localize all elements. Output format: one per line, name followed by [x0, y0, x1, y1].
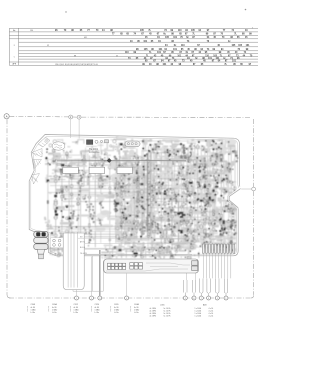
trace pour bg9 [214, 220, 225, 225]
wire horiz ah10 [54, 226, 110, 228]
wire trace bw435 [234, 195, 235, 200]
trace pour bg33 [163, 174, 174, 181]
trace pour bg48 [183, 227, 197, 233]
wire trace b2w79 [126, 201, 129, 204]
component U0 top [87, 140, 93, 145]
transistor Qbd67 [199, 171, 201, 173]
wire trace aw18 [62, 186, 72, 188]
transistor Qbd21 [187, 214, 188, 215]
svg-text:330: 330 [137, 213, 140, 215]
capacitor Cb74 [171, 172, 173, 174]
transistor Qbd237 [182, 167, 184, 169]
wire trace bw426 [185, 240, 189, 244]
wire trace ew11 [179, 246, 186, 251]
resistor Ra9 [47, 201, 48, 204]
wire vert bv2 [143, 142, 147, 238]
wire trace aw97 [48, 153, 60, 155]
transistor Qbd221 [214, 219, 215, 220]
wire trace bw207 [164, 196, 170, 198]
transistor Qad1 [70, 235, 71, 236]
resistor Rb98 [148, 160, 150, 163]
wire vert b2v0 [117, 166, 119, 243]
svg-text:C47: C47 [69, 157, 72, 159]
transistor Qbd63 [148, 220, 149, 221]
trace pour bg11 [151, 195, 157, 199]
diode chain Dpc41 [184, 230, 189, 241]
diode chain Dpc15 [185, 194, 190, 205]
transistor Qbd81 [144, 155, 146, 157]
wire horiz bh4 [141, 159, 194, 161]
wire trace bw402 [178, 246, 184, 247]
wire trace bw119 [220, 155, 223, 159]
wire trace b2w17 [125, 230, 127, 233]
wire trace bw381 [193, 208, 201, 213]
wire trace bw321 [207, 141, 209, 150]
capacitor Cb136 [203, 213, 206, 216]
diode chain Dpc23 [201, 209, 204, 216]
wire trace bw45 [212, 152, 214, 157]
svg-text:4.7k: 4.7k [212, 192, 215, 194]
wire horiz ah11 [75, 233, 136, 235]
wire vert bv13 [180, 145, 182, 246]
node pin P1 [75, 296, 79, 300]
wire horiz bh2 [148, 152, 178, 154]
transistor Qb161 [156, 183, 159, 186]
wire trace bw244 [196, 237, 202, 241]
wire trace bw80 [177, 179, 180, 185]
wire trace cw26 [72, 140, 84, 144]
wire trace dw5 [103, 176, 112, 178]
wire trace bw104 [170, 189, 178, 190]
wire trace bw117 [191, 139, 194, 142]
transistor Qb2d37 [116, 193, 117, 194]
resistor Rb3 [230, 181, 232, 183]
trace pour bg16 [159, 156, 167, 161]
wire trace bw279 [213, 143, 215, 146]
capacitor Cb135 [180, 222, 183, 225]
wire trace bw52 [157, 224, 162, 226]
capacitor Cb157 [168, 152, 170, 154]
transistor Qb78 [182, 156, 185, 159]
wire trace aw107 [56, 207, 64, 209]
transistor Qbd211 [168, 155, 170, 157]
wire trace bw369 [213, 195, 215, 199]
resistor Rb246 [128, 228, 129, 231]
wire trace bw408 [174, 217, 180, 222]
wire trace bw151 [174, 195, 178, 200]
transistor Qd3 [70, 176, 73, 179]
wire e0 [186, 245, 196, 249]
wire trace bw305 [151, 243, 160, 245]
wire trace bw29 [139, 190, 143, 194]
diode chain Dpca23 [88, 203, 92, 217]
wire e12 [173, 256, 178, 259]
transistor Qe18 [185, 257, 186, 258]
svg-text:4: 4 [126, 298, 127, 300]
capacitor Ce2 [175, 246, 178, 249]
transistor Qbd9 [187, 188, 188, 189]
wire trace bw270 [204, 149, 210, 151]
trace pour bg32 [208, 210, 213, 218]
capacitor Cb44 [215, 162, 218, 165]
wire trace b2w25 [119, 245, 121, 250]
transistor Qb115 [155, 223, 158, 226]
wire trace b2w13 [116, 199, 118, 203]
wire trace b2w22 [139, 201, 141, 211]
resistor Rb140 [223, 221, 225, 225]
transistor Qb2d5 [130, 234, 132, 236]
transistor Qb60 [206, 216, 209, 219]
capacitor Cb179 [200, 164, 203, 167]
resistor Ra34 [55, 209, 57, 212]
wire horiz ah6 [62, 193, 136, 195]
wire trace bw395 [176, 161, 180, 163]
transistor Qad5 [117, 180, 118, 181]
wire c1 [63, 156, 65, 166]
transistor Qbd39 [221, 225, 222, 226]
transistor Qbd176 [157, 146, 159, 148]
capacitor Cc1 [67, 156, 69, 158]
resistor Rc3 [52, 150, 55, 153]
wire trace bw28 [209, 165, 216, 167]
wire c36 [118, 159, 120, 166]
wire trace aw94 [120, 174, 122, 178]
wire trace aw48 [71, 232, 73, 234]
transistor Qe20 [70, 249, 72, 251]
transistor Qbd239 [136, 172, 138, 174]
diode chain Dpc18 [173, 192, 176, 200]
capacitor Cb239 [137, 215, 139, 217]
wire trace bw443 [223, 164, 224, 168]
wire trace aw37 [133, 211, 136, 221]
wire trace b2w50 [117, 247, 125, 250]
wire trace bw197 [162, 192, 167, 195]
transistor Qb47 [209, 204, 212, 207]
wire trace bw278 [162, 172, 167, 176]
resistor Rb128 [182, 214, 186, 216]
resistor Rb22 [123, 237, 126, 238]
wire right chain lower [253, 191, 255, 295]
wire trace bw342 [209, 187, 212, 192]
svg-text:3: 3 [99, 298, 100, 300]
wire trace bw432 [142, 200, 143, 205]
wire trace bw43 [176, 159, 184, 161]
trace pour bg71 [188, 199, 200, 204]
transistor Qb232 [127, 221, 130, 224]
transistor Qb2d18 [137, 180, 139, 182]
cable harness W1 wires [68, 232, 77, 288]
wire trace ew4 [117, 252, 122, 258]
transistor Qbd46 [147, 228, 148, 229]
wire trace cw20 [104, 164, 110, 166]
transistor Qbd52 [205, 175, 206, 176]
wire trace bw358 [215, 211, 220, 212]
wire trunk v3 [144, 158, 146, 225]
wire trace bw5 [216, 207, 218, 213]
diode chain Dpc30 [182, 144, 187, 159]
wire c33 [98, 159, 100, 163]
wire trace bw81 [175, 144, 180, 148]
resistor Rb95 [155, 226, 158, 227]
wire trace bw218 [176, 221, 184, 223]
transistor Qd2 [82, 177, 83, 178]
svg-text:L-Okr: L-Okr [134, 312, 139, 314]
transistor Qbd94 [199, 206, 200, 207]
wire harness feed 2 [85, 242, 186, 244]
wire trace bw367 [142, 230, 150, 232]
wire c35 [134, 164, 136, 166]
wire trace bw250 [225, 182, 230, 186]
wire vertical 103 [102, 261, 104, 292]
wire vert b2v5 [138, 172, 142, 236]
wire vert av4 [71, 160, 73, 244]
transistor Qbd5 [211, 144, 212, 145]
diode chain Dpc27 [172, 207, 177, 216]
transistor Qbd122 [219, 219, 221, 221]
capacitor Cb63 [171, 188, 173, 190]
diode chain Dpca21 [99, 168, 102, 179]
wire trace cw2 [105, 142, 107, 153]
transistor Qb177 [180, 206, 183, 209]
wire trace bw411 [195, 224, 200, 226]
wire trace bw320 [154, 247, 161, 249]
svg-text:10u: 10u [194, 147, 197, 149]
capacitor Cb174 [228, 181, 230, 183]
transistor Qbd121 [192, 172, 194, 174]
resistor Re9 [158, 249, 162, 252]
wire vert bv11 [175, 149, 179, 242]
transistor Qbd117 [151, 185, 153, 187]
transistor Qbd11 [194, 219, 195, 220]
trace pour bga3 [117, 216, 125, 225]
resistor Rb11 [189, 231, 192, 232]
diode chain Dpc39 [232, 182, 235, 188]
svg-text:R204: R204 [217, 140, 221, 142]
diode chain Dpca3 [58, 168, 63, 180]
wire trace bw32 [150, 233, 157, 234]
trace pour bg54 [221, 222, 231, 229]
diode chain Dpc0 [187, 157, 190, 164]
svg-text:C115: C115 [223, 232, 227, 234]
wire trace aw57 [113, 209, 115, 211]
wire trace bw401 [151, 240, 153, 248]
wire trace b2w28 [122, 197, 124, 199]
svg-text:R12: R12 [176, 195, 179, 197]
wire horiz ah8 [57, 209, 81, 211]
wire trace bw13 [195, 213, 199, 215]
wire e25 [175, 247, 180, 250]
wire trace b2w43 [116, 237, 118, 240]
wire trace cw28 [75, 141, 77, 144]
transistor Qad13 [131, 169, 133, 171]
transformer T1 neck [37, 249, 44, 254]
transistor Qbd198 [203, 198, 204, 199]
wire right pad to board [240, 188, 252, 190]
wire e9 [180, 256, 182, 258]
wire trunk v1 [147, 153, 149, 232]
transistor Qb2d38 [130, 175, 131, 176]
svg-text:B-LUE: B-LUE [80, 247, 86, 249]
wire trace cw14 [82, 149, 90, 152]
transistor Qbd242 [198, 194, 199, 195]
transistor Qb2d40 [121, 190, 122, 191]
svg-text:R12: R12 [153, 183, 156, 185]
wire trace bw63 [225, 246, 232, 251]
resistor Rb33 [213, 190, 215, 192]
wire trace bw457 [206, 165, 208, 168]
transistor Qbd65 [220, 233, 221, 234]
trace pour bg53 [197, 193, 207, 202]
wire trace aw36 [45, 175, 47, 179]
transistor Qbd201 [186, 148, 188, 150]
resistor Rb0 [189, 192, 192, 194]
wire vert bv29 [234, 147, 236, 241]
transistor Qa59 [54, 202, 58, 206]
svg-text:R12: R12 [121, 206, 124, 208]
trace pour bg31 [137, 214, 145, 219]
transistor Qb2d32 [126, 235, 127, 236]
resistor Ra72 [61, 234, 63, 237]
wire trace bw354 [188, 148, 189, 152]
transistor Qbd120 [141, 178, 142, 179]
wire trace ew8 [150, 254, 153, 257]
svg-text:8: 8 [208, 298, 209, 300]
wire trace bw303 [225, 171, 232, 172]
wire trace bw375 [138, 157, 143, 160]
capacitor Cb20 [120, 172, 123, 175]
transistor Qbd35 [216, 148, 217, 149]
capacitor Cb126 [190, 221, 192, 223]
transistor Qb2d10 [129, 215, 131, 217]
transistor Qbd135 [199, 160, 201, 162]
wire trace b2w15 [116, 166, 124, 169]
wire d0 [100, 176, 107, 180]
wire trace ew1 [166, 247, 168, 253]
wire vert bv14 [183, 150, 185, 238]
wire c7 [96, 150, 99, 152]
wire trace b2w54 [123, 177, 125, 180]
transistor Qb5 [135, 215, 137, 217]
svg-text:R12: R12 [103, 186, 106, 188]
svg-text:CX05: CX05 [114, 304, 119, 306]
transistor Qbd27 [211, 234, 212, 235]
wire trace bw14 [217, 236, 219, 242]
wire trace bw237 [228, 144, 235, 147]
wire trace bw285 [225, 169, 227, 172]
wire trace e2w5 [71, 254, 76, 255]
wire trace aw82 [53, 159, 61, 164]
wire trace dw0 [85, 174, 90, 177]
transistor Qbd148 [148, 193, 150, 195]
wire trace cw13 [124, 159, 134, 161]
wire trace cw16 [117, 138, 126, 140]
transistor Qb119 [212, 221, 216, 225]
wire trace bw94 [136, 206, 138, 214]
wire trace bw229 [144, 140, 146, 144]
transistor Qbd113 [194, 145, 195, 146]
wire trace bw286 [204, 198, 212, 200]
transistor Qbd241 [154, 239, 156, 241]
wire trace bw397 [216, 158, 218, 164]
transistor Qbd79 [171, 192, 172, 193]
wire vert bv9 [169, 150, 172, 246]
capacitor Cb225 [116, 227, 119, 230]
diode chain Dpc10 [148, 219, 153, 231]
wire trace bw202 [136, 188, 139, 191]
transistor Qa46 [118, 182, 121, 185]
resistor Rb127 [215, 186, 218, 187]
wire e27 [75, 252, 76, 254]
capacitor Ce5 [171, 255, 173, 257]
capacitor Cc3 [90, 163, 92, 165]
transistor Qb2d15 [122, 211, 124, 213]
capacitor Ce3 [132, 254, 135, 257]
capacitor Cb54 [164, 151, 166, 153]
transistor Qad14 [62, 200, 63, 201]
wire horiz ah7 [63, 201, 136, 203]
wire trace bw280 [170, 140, 178, 141]
resistor Ra61 [124, 190, 126, 191]
wire trace b2w31 [115, 246, 120, 248]
diode chain Dpca0 [58, 227, 62, 239]
trace pour bg17 [165, 234, 171, 239]
svg-text:330: 330 [55, 156, 58, 158]
wire trace bw211 [159, 152, 163, 156]
transistor Qbd224 [213, 215, 214, 216]
resistor Rb70 [156, 192, 158, 194]
wire trace bw246 [206, 230, 214, 234]
wire trace bw370 [230, 159, 234, 164]
trace pour bga14 [101, 224, 114, 228]
transistor Qe13 [164, 247, 165, 248]
wire c0 [68, 164, 80, 166]
transistor Qb2d3 [117, 188, 118, 189]
wire trace b2w45 [120, 204, 122, 210]
trace pour bg57 [159, 217, 165, 223]
transistor Qe5 [105, 254, 106, 255]
diode chain Dpc31 [146, 212, 151, 225]
wire vert bv6 [152, 145, 157, 237]
transistor Qb221 [133, 179, 135, 181]
trace pour bg52 [215, 147, 221, 151]
transistor Qb52 [208, 222, 211, 225]
svg-text:L-Okr: L-Okr [95, 312, 100, 314]
transistor Qb147 [219, 244, 223, 248]
svg-text:IC2: IC2 [163, 229, 166, 231]
wire trace bw266 [156, 243, 163, 245]
transistor Qa25 [70, 171, 74, 175]
wire horiz b2h4 [120, 214, 138, 216]
resistor Rb149 [223, 179, 225, 181]
wire trace bw79 [197, 172, 201, 180]
wire c15 [92, 149, 94, 153]
wire vert av11 [115, 158, 117, 243]
trace pour bga18 [120, 233, 125, 237]
resistor Ra55 [66, 152, 69, 154]
wire e24 [141, 251, 143, 257]
capacitor Ca17 [118, 188, 120, 190]
diode chain Dpc43 [231, 210, 234, 217]
resistor Rb46 [170, 240, 173, 242]
wire trace b2w19 [130, 246, 132, 249]
wire trace cw17 [129, 155, 134, 157]
wire trace dw4 [116, 176, 121, 180]
capacitor Cb6 [171, 234, 173, 236]
transistor Qa67 [54, 216, 57, 219]
wire trace bw322 [200, 229, 207, 231]
wire d5 [96, 175, 102, 177]
transistor Qb2d2 [115, 208, 116, 209]
